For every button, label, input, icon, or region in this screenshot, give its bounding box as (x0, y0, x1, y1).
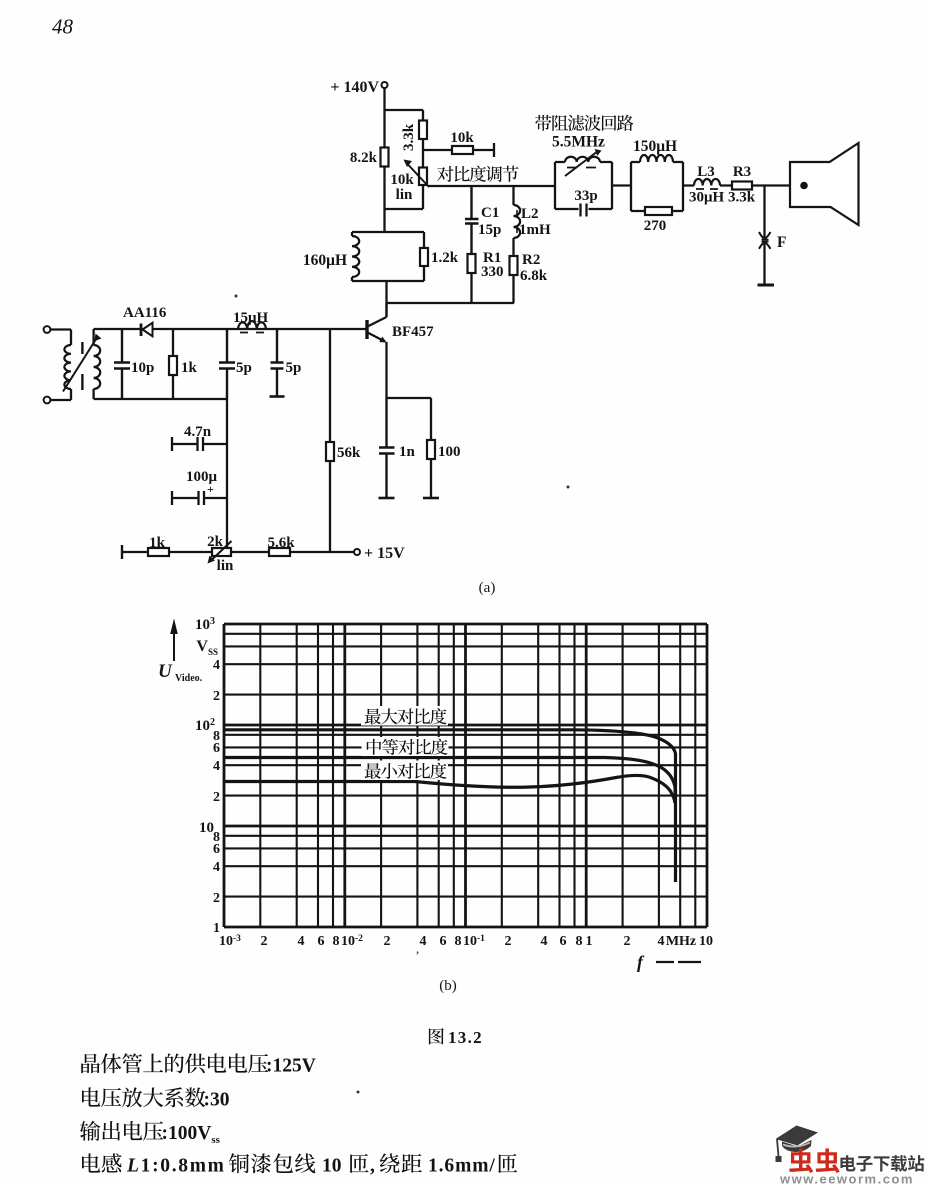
svg-text:270: 270 (644, 218, 667, 234)
wire input bottom bus (94, 398, 227, 400)
resistor 1k input (172, 329, 174, 399)
tank coil 160uH box (352, 232, 424, 281)
resistor R1 330 (468, 254, 476, 273)
capacitor C1 15p (465, 186, 479, 254)
svg-text:33p: 33p (574, 188, 597, 204)
svg-text:2k: 2k (207, 534, 224, 550)
spec line 3 (80, 1121, 163, 1141)
svg-text:5p: 5p (236, 360, 252, 376)
svg-text:L3: L3 (697, 164, 715, 180)
svg-text:R3: R3 (733, 164, 751, 180)
svg-text:6: 6 (213, 741, 220, 756)
svg-text:10: 10 (322, 1156, 342, 1177)
svg-text:3.3k: 3.3k (401, 123, 417, 151)
svg-text:10: 10 (199, 820, 214, 836)
transformer core (81, 342, 83, 390)
transformer secondary (92, 329, 94, 399)
capacitor 5p first (219, 329, 235, 399)
capacitor 1n (379, 398, 395, 498)
curve min contrast (224, 775, 675, 803)
curve max contrast (224, 730, 676, 882)
svg-text:6: 6 (318, 934, 325, 949)
svg-text:5.5MHz: 5.5MHz (552, 134, 605, 151)
label min contrast (361, 761, 448, 781)
spec line 1 (81, 1053, 268, 1073)
svg-text:100μ: 100μ (186, 469, 218, 485)
spec line 2 (82, 1087, 205, 1107)
svg-text:AA116: AA116 (123, 305, 167, 321)
resistor 3.3k (422, 110, 424, 168)
graph grid minor (224, 624, 707, 927)
potentiometer 2k lin (212, 548, 231, 556)
svg-text:100: 100 (438, 444, 461, 460)
svg-text:1.2k: 1.2k (431, 250, 459, 266)
transformer tuning arrow (63, 338, 97, 392)
wire +140V vertical rail (383, 88, 385, 232)
svg-text:10p: 10p (131, 360, 154, 376)
wire pot bottom (385, 185, 424, 209)
wire wiper bus (428, 185, 555, 187)
svg-text:F: F (777, 234, 786, 251)
curve medium contrast (224, 758, 675, 796)
svg-text:4: 4 (298, 934, 305, 949)
svg-text:2: 2 (213, 891, 220, 906)
svg-text::30: :30 (204, 1090, 230, 1111)
svg-text:4: 4 (420, 934, 427, 949)
svg-text:150μH: 150μH (633, 138, 677, 155)
svg-text:8: 8 (455, 934, 462, 949)
diode AA116 (140, 324, 143, 337)
wire upper bottom rail (387, 302, 515, 304)
svg-text:5.6k: 5.6k (267, 535, 295, 551)
svg-text:1.6mm/: 1.6mm/ (428, 1156, 496, 1177)
label contrast adjust (437, 166, 519, 182)
svg-text:Video.: Video. (175, 673, 203, 684)
resistor 100 (430, 398, 432, 498)
svg-text:4: 4 (213, 759, 220, 774)
scan specks (235, 295, 238, 298)
svg-text:C1: C1 (481, 205, 499, 221)
svg-text:lin: lin (396, 187, 413, 203)
svg-text:,: , (370, 1156, 375, 1177)
watermark site name (840, 1155, 924, 1172)
ground (758, 284, 775, 287)
terminal +140V (382, 82, 388, 88)
svg-text:U: U (158, 661, 173, 682)
svg-text:13.2: 13.2 (448, 1028, 483, 1047)
svg-text:MHz: MHz (666, 934, 696, 949)
svg-text:(a): (a) (479, 580, 496, 596)
label medium contrast (362, 737, 449, 756)
wire collector riser (385, 281, 387, 317)
svg-text:15μH: 15μH (233, 310, 269, 326)
svg-text:10k: 10k (450, 130, 474, 146)
transistor BF457 (365, 320, 368, 339)
svg-text:lin: lin (217, 558, 234, 574)
svg-text:6: 6 (560, 934, 567, 949)
svg-text:8: 8 (576, 934, 583, 949)
CRT electrode (790, 143, 859, 225)
terminal +15V (354, 549, 360, 555)
svg-text:15p: 15p (478, 222, 501, 238)
watermark chongchong red (789, 1148, 840, 1173)
resistor R3 3.3k (732, 182, 752, 190)
label max contrast (361, 706, 448, 726)
capacitor 100u electrolytic (172, 491, 227, 505)
svg-text:BF457: BF457 (392, 324, 434, 340)
svg-text:+ 15V: + 15V (364, 545, 405, 562)
watermark graduation cap (776, 1126, 819, 1146)
capacitor 4.7n (172, 437, 227, 451)
rail +15V (121, 545, 123, 559)
svg-text:3.3k: 3.3k (728, 190, 756, 206)
wire input leads (51, 330, 72, 401)
label band-stop filter (535, 115, 633, 131)
svg-text:48: 48 (52, 15, 74, 39)
inductor L2 1mH (512, 186, 514, 256)
svg-text:4: 4 (213, 860, 220, 875)
wire input top bus (94, 328, 367, 330)
svg-text:330: 330 (481, 264, 504, 280)
inductor L3 30uH (683, 184, 732, 186)
svg-text:1k: 1k (149, 535, 166, 551)
svg-text:4: 4 (213, 658, 220, 673)
svg-text:56k: 56k (337, 445, 361, 461)
svg-text:L2: L2 (521, 206, 539, 222)
svg-text:2: 2 (624, 934, 631, 949)
svg-text:10: 10 (699, 934, 713, 949)
svg-text:L1:0.8mm: L1:0.8mm (126, 1156, 226, 1177)
svg-text:2: 2 (261, 934, 268, 949)
wire trap to peaking (612, 184, 631, 186)
svg-text:10k: 10k (390, 172, 414, 188)
svg-text:4: 4 (658, 934, 665, 949)
svg-text::125V: :125V (266, 1056, 316, 1077)
resistor 8.2k (381, 148, 389, 167)
transformer T1 primary (70, 330, 72, 401)
resistor 56k (329, 329, 331, 552)
wire detector dropper (226, 399, 228, 552)
svg-text:,: , (416, 941, 419, 956)
svg-text:6.8k: 6.8k (520, 268, 548, 284)
svg-text:(b): (b) (439, 978, 457, 994)
peaking box 150uH / 270 (631, 162, 683, 211)
capacitor 5p second with stub (271, 329, 284, 396)
svg-text:5p: 5p (286, 360, 302, 376)
svg-text:8.2k: 8.2k (350, 150, 378, 166)
graph grid major (224, 624, 707, 927)
svg-text:2: 2 (384, 934, 391, 949)
wire branch to 3.3k (385, 109, 424, 111)
svg-text:1: 1 (586, 934, 593, 949)
resistor 5.6k (269, 548, 290, 556)
svg-text:160μH: 160μH (303, 252, 347, 269)
wire emitter branch (387, 397, 432, 399)
svg-text:2: 2 (213, 689, 220, 704)
svg-text:2: 2 (505, 934, 512, 949)
capacitor 10p (114, 329, 130, 399)
trap box 33p 5.5MHz (555, 162, 612, 209)
svg-text:6: 6 (213, 842, 220, 857)
resistor 1.2k (420, 248, 428, 266)
svg-text:www.eeworm.com: www.eeworm.com (779, 1172, 914, 1185)
inductor 15uH (238, 321, 266, 329)
svg-text:1n: 1n (399, 444, 416, 460)
resistor 10k with stub (423, 143, 494, 157)
svg-text:30μH: 30μH (689, 190, 725, 206)
spark gap F (763, 186, 765, 286)
svg-text:8: 8 (333, 934, 340, 949)
svg-text:1k: 1k (181, 360, 198, 376)
svg-text:1mH: 1mH (519, 222, 551, 238)
input terminal bottom (44, 397, 51, 404)
svg-text:6: 6 (440, 934, 447, 949)
input terminal top (44, 326, 51, 333)
spec line 4 (82, 1153, 122, 1172)
resistor 1k bias (148, 548, 169, 556)
svg-text:+ 140V: + 140V (330, 79, 379, 96)
potentiometer 10k lin (419, 168, 427, 186)
resistor R2 6.8k (510, 256, 518, 275)
svg-text:4: 4 (541, 934, 548, 949)
svg-text:2: 2 (213, 790, 220, 805)
svg-text:4.7n: 4.7n (184, 424, 212, 440)
caption fig 13.2 (429, 1028, 444, 1044)
axis arrow U video (173, 630, 175, 661)
svg-text:R2: R2 (522, 252, 540, 268)
